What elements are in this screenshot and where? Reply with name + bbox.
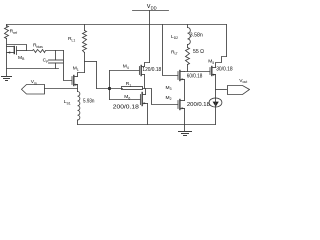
wire Vin to M1 source — [45, 88, 78, 90]
transistor M4 — [123, 63, 161, 89]
svg-text:200/0.18: 200/0.18 — [187, 102, 210, 108]
svg-text:Vin: Vin — [31, 79, 37, 85]
wire M5 source to Vout — [216, 89, 227, 91]
svg-text:5.93n: 5.93n — [83, 99, 95, 105]
wire MB diode loop drain-gate — [7, 45, 27, 51]
transistor M3 — [166, 71, 203, 101]
inductor LD2 — [187, 25, 189, 28]
wire top VDD rail — [7, 24, 227, 26]
svg-text:M3: M3 — [166, 85, 172, 91]
port Vout — [228, 86, 250, 95]
svg-text:120/0.18: 120/0.18 — [142, 67, 161, 73]
wire bus to M6 gate — [110, 99, 141, 101]
svg-text:30/0.18: 30/0.18 — [216, 66, 233, 72]
svg-text:LD2: LD2 — [171, 34, 178, 40]
svg-text:RLf: RLf — [171, 49, 177, 55]
ground left — [2, 77, 12, 81]
port Vin — [22, 85, 45, 95]
svg-text:Rbias: Rbias — [33, 43, 43, 49]
wire node line M3 drain to M5 gate — [185, 71, 211, 73]
svg-text:M4: M4 — [123, 64, 129, 70]
wire VDD tap down through rail to M4 source jog — [149, 11, 151, 63]
node VDD label — [147, 4, 157, 11]
wire RLf bottom to node line — [187, 65, 189, 72]
svg-text:CP: CP — [43, 58, 50, 64]
wire left bus top — [6, 25, 8, 27]
VDD supply bar — [133, 10, 169, 12]
ground bottom right — [179, 125, 192, 136]
svg-text:60/0.18: 60/0.18 — [187, 74, 203, 80]
transistor MB — [7, 47, 27, 62]
svg-text:200/0.18: 200/0.18 — [113, 105, 139, 111]
wire RL1 bottom to M1 drain — [84, 53, 86, 73]
svg-text:LS1: LS1 — [64, 99, 71, 105]
svg-text:55 Ω: 55 Ω — [193, 49, 204, 55]
wire bias line down to M1 gate — [64, 51, 73, 81]
svg-text:M2: M2 — [166, 95, 172, 101]
resistor RLf — [186, 48, 190, 65]
resistor RL1 — [83, 31, 87, 53]
resistor Rbias — [27, 50, 64, 53]
svg-text:MB: MB — [18, 55, 25, 61]
wire R1 right to M2 gate — [143, 89, 179, 105]
current source I1 — [209, 98, 222, 125]
transistor M2 — [166, 95, 210, 125]
wire drain node to gate bus — [96, 62, 98, 89]
wire bus feed — [97, 88, 123, 90]
svg-text:M6: M6 — [124, 94, 130, 100]
wire bottom ground rail — [78, 124, 216, 126]
svg-text:VDD: VDD — [147, 4, 157, 11]
wire LS1 bottom to ground rail — [77, 120, 79, 125]
svg-text:M5: M5 — [208, 59, 214, 65]
transistor M1 — [72, 65, 85, 91]
wire left bus to ground — [6, 39, 8, 77]
wire RL1 branch from rail — [84, 25, 86, 31]
svg-text:RL1: RL1 — [68, 36, 75, 42]
wire drain node branch — [85, 61, 97, 63]
svg-text:Rref: Rref — [10, 29, 18, 35]
resistor R1 box — [122, 87, 143, 90]
wire ground return line — [7, 68, 59, 70]
inductor LS1 — [78, 92, 80, 121]
wire bus to M4 gate — [110, 70, 140, 72]
svg-text:M1: M1 — [73, 65, 79, 71]
transistor M6 — [113, 89, 148, 125]
node junction dot — [108, 87, 111, 90]
resistor Rref — [5, 26, 9, 39]
wire M3 gate bias from rail — [163, 25, 179, 76]
wire LD2 to RLf — [187, 45, 189, 48]
svg-text:R1: R1 — [126, 81, 132, 87]
capacitor Cp — [43, 51, 63, 69]
wire gate bus — [109, 71, 111, 100]
wire rail drop to M5 drain — [226, 25, 228, 57]
transistor M5 — [208, 57, 233, 99]
svg-text:Vout: Vout — [239, 78, 247, 84]
svg-text:3.58n: 3.58n — [190, 33, 203, 39]
